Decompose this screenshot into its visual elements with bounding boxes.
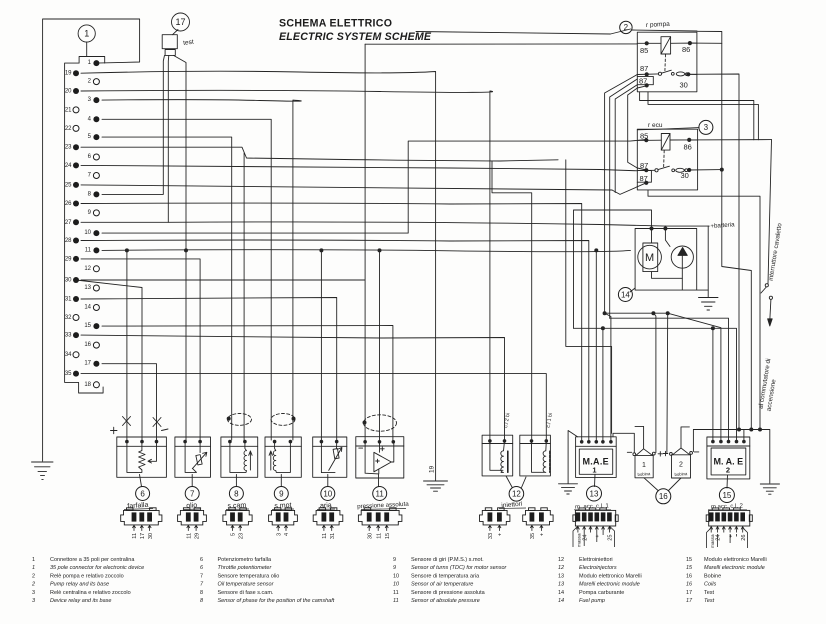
sensor 7 inner wires (185, 442, 200, 473)
pin 13 (93, 285, 99, 291)
wire pin 29 to sensor 7 right (81, 259, 200, 440)
node circle 12 (509, 487, 524, 502)
pin 20 (73, 88, 79, 94)
svg-text:Marelli electronic module: Marelli electronic module (704, 565, 765, 571)
wire pin 11 drop MAE1 (595, 250, 597, 440)
svg-text:Sensore temperatura olio: Sensore temperatura olio (218, 574, 280, 580)
sensor 6 inner band (117, 445, 167, 447)
wire pin 4 to sensor 9 left (102, 119, 271, 440)
svg-text:14: 14 (84, 305, 91, 311)
injector A coil (490, 441, 505, 472)
plug sensor10 (aria) (313, 508, 343, 525)
sensor 7 dots (183, 440, 187, 444)
svg-text:2: 2 (726, 466, 730, 475)
plus mark sensor6 (111, 427, 118, 434)
injector box A (482, 435, 513, 476)
svg-text:7: 7 (200, 574, 203, 580)
svg-text:16: 16 (659, 492, 668, 501)
svg-text:30: 30 (680, 81, 688, 90)
shield dot sensor 8 (227, 417, 231, 421)
svg-text:Sensore di temperatura aria: Sensore di temperatura aria (411, 574, 480, 580)
node circle 6 (136, 487, 150, 501)
pin 31 (73, 296, 79, 302)
wire channel x565 to MAE1 area (566, 160, 612, 434)
underline farfalla (124, 509, 153, 510)
wire pin 5 to sensor 8 left (102, 137, 232, 440)
svg-text:32: 32 (65, 315, 72, 321)
sensor 6 wiper arrow (148, 442, 157, 463)
wire pin 11 drop sensor 6 left (126, 250, 128, 440)
svg-text:30: 30 (148, 533, 154, 539)
sensor 8 coil (230, 442, 247, 473)
MAE1 band line (576, 445, 617, 447)
node circle 1 stem (86, 42, 88, 56)
sensor 7 box (175, 437, 211, 477)
svg-text:8: 8 (200, 590, 203, 596)
svg-text:9: 9 (393, 565, 396, 571)
svg-text:33: 33 (65, 333, 72, 339)
underline s cam (226, 508, 249, 511)
svg-text:Elettroiniettori: Elettroiniettori (579, 557, 613, 563)
node circle 13 (587, 486, 602, 501)
coil 1 HT lead (635, 426, 644, 448)
relay 2 switch pivot (658, 72, 661, 75)
ground G3 MAE1 (559, 484, 578, 494)
junction dots on pin11 bus and channels (125, 248, 129, 252)
svg-text:86: 86 (682, 45, 690, 54)
X mark wire 6 left (123, 417, 131, 426)
relay 2 pin dots (645, 41, 649, 45)
underline s mot (272, 508, 294, 511)
plug injector A (480, 508, 510, 525)
fuel pump triangle (678, 248, 687, 256)
svg-text:13: 13 (558, 582, 565, 588)
svg-text:Sensore di fase s.cam.: Sensore di fase s.cam. (218, 590, 274, 596)
connector pins (65, 60, 100, 388)
relay 2 pin30 wire (688, 73, 697, 75)
node circle 11 (373, 487, 387, 501)
relay 2 coil (661, 37, 671, 54)
svg-text:Oil temperature sensor: Oil temperature sensor (218, 582, 275, 588)
svg-text:ELECTRIC SYSTEM SCHEME: ELECTRIC SYSTEM SCHEME (279, 31, 432, 43)
injector box B band (520, 443, 551, 445)
relay 3 87b small frame (637, 171, 651, 183)
relay 2 top edge extension (697, 31, 722, 43)
wire relay2 wrap staircase a (640, 92, 754, 140)
pin 15 (93, 323, 99, 329)
wire channel V2 horizontal y318 to MAE2 wire3 (610, 318, 729, 440)
coil 2 terminals (670, 453, 673, 456)
wire pin 17 to sensor 6 right (102, 364, 157, 440)
ground G1 bottom-left (32, 462, 54, 479)
pin 18 (93, 382, 99, 388)
relay 2 dashed actuator (664, 55, 667, 72)
wire test-left to pin 8 (102, 55, 165, 194)
svg-text:c.l 1 bi: c.l 1 bi (546, 413, 555, 429)
svg-text:+batteria: +batteria (710, 221, 735, 230)
svg-text:16: 16 (686, 574, 692, 580)
svg-text:test: test (183, 39, 195, 47)
wire pin 10 to relay3 85 (102, 140, 645, 234)
wire pin 23 jog route to channel (81, 147, 558, 161)
pin 30 (73, 277, 79, 283)
svg-text:Marelli electronic module: Marelli electronic module (579, 582, 640, 588)
svg-text:14: 14 (621, 290, 630, 299)
underline olio (184, 508, 200, 511)
injector B core bar (549, 451, 551, 472)
shield dot sensor 9 (292, 417, 296, 421)
relay 2 switch blade (662, 70, 672, 73)
stand switch upper contact (765, 284, 768, 287)
pin 16 (93, 342, 99, 348)
injector box A band (482, 443, 513, 445)
ground G5 pump (699, 298, 719, 311)
pin 8 (93, 191, 99, 197)
pin 22 (73, 125, 79, 131)
stand switch blade (761, 287, 766, 293)
svg-text:11: 11 (322, 533, 328, 539)
sensor 11 op-amp triangle (374, 452, 391, 472)
relay 2 87 wire (637, 73, 658, 76)
relay 3 switch pivot (655, 169, 658, 172)
wire pin 26 to MAE1 (81, 203, 582, 440)
svg-text:9: 9 (393, 557, 396, 563)
relay 3 87 wire (637, 169, 655, 171)
svg-text:87: 87 (640, 174, 648, 183)
pin 29 (73, 256, 79, 262)
relay 2 label line (632, 30, 697, 31)
wire injectors to node 12 (506, 476, 526, 488)
svg-text:87: 87 (640, 64, 648, 73)
sensor 11 op-amp wires (365, 442, 394, 474)
svg-text:interruttore cavaletto: interruttore cavaletto (768, 222, 784, 281)
node circle 8 (229, 487, 243, 501)
relay 2 pin85 wire (637, 42, 661, 44)
svg-text:87: 87 (640, 161, 648, 170)
svg-text:7: 7 (200, 582, 204, 588)
svg-text:17: 17 (140, 533, 146, 539)
svg-text:12: 12 (512, 490, 521, 499)
injector B coil (532, 441, 547, 472)
svg-text:86: 86 (684, 143, 692, 152)
svg-text:Electroinjectors: Electroinjectors (579, 565, 617, 571)
node circle 16 (656, 489, 671, 504)
relay 2 contact oval (676, 72, 685, 76)
svg-text:7: 7 (190, 489, 195, 498)
node circle 1 (78, 25, 95, 42)
svg-text:18: 18 (84, 382, 91, 388)
svg-text:3: 3 (704, 123, 709, 132)
MAE2 outer box (707, 437, 750, 479)
svg-text:17: 17 (84, 361, 91, 367)
sensor 10 inner wires (321, 442, 336, 473)
svg-text:25: 25 (65, 182, 72, 188)
wire relay2 wrap staircase b (648, 92, 758, 140)
svg-text:2: 2 (32, 574, 35, 580)
svg-text:12: 12 (558, 557, 564, 563)
svg-text:SCHEMA ELETTRICO: SCHEMA ELETTRICO (279, 18, 392, 30)
plug MAE1 end hooks (573, 526, 615, 547)
minus mark sensor6 (162, 429, 169, 431)
node circle 15 (719, 488, 734, 503)
svg-text:13: 13 (558, 574, 564, 580)
svg-text:Pump relay and its base: Pump relay and its base (50, 582, 109, 588)
svg-text:Modulo elettronico Marelli: Modulo elettronico Marelli (704, 557, 767, 563)
wire pin 11 drop sensor 11 mid (379, 250, 381, 440)
svg-text:Connettore a 35 poli per centr: Connettore a 35 poli per centralina (50, 557, 135, 563)
wire long horizontal y328 to MAE2 wire4 (574, 328, 737, 440)
sensor 8 dots (228, 440, 232, 444)
fuel pump second stem (665, 229, 670, 247)
wire diagonal to MAE2 wire2 (668, 313, 721, 440)
MAE1 wire dots (580, 440, 584, 444)
pin 34 (73, 352, 79, 358)
sensor 10 dots (320, 440, 324, 444)
svg-text:30: 30 (681, 171, 689, 180)
injector A core bar (507, 451, 509, 472)
pin 14 (93, 305, 99, 311)
pin 23 (73, 144, 79, 150)
node circle 3 (699, 120, 713, 134)
sensor 8 inner band (221, 445, 258, 447)
pin 12 (93, 266, 99, 272)
svg-text:10: 10 (323, 489, 332, 498)
pin 21 (73, 107, 79, 113)
svg-text:c.l 2 bi: c.l 2 bi (503, 413, 512, 429)
wire relay2 85 long feed from pin30 riser (365, 43, 637, 45)
underline pressione assoluta (361, 509, 406, 510)
svg-text:14: 14 (558, 598, 564, 604)
wire pin 28 to MAE1 (81, 240, 589, 440)
pin 11 (93, 247, 99, 253)
svg-text:9: 9 (279, 489, 284, 498)
relay 2 87b small frame (637, 76, 653, 84)
wire test-mid to pin 27 (81, 55, 169, 222)
svg-text:12: 12 (558, 565, 564, 571)
svg-text:2: 2 (88, 79, 92, 85)
test unit 17 link line (173, 30, 179, 35)
svg-text:85: 85 (640, 132, 648, 141)
relay 2 box (637, 32, 697, 92)
svg-text:28: 28 (65, 238, 72, 244)
pin 6 (93, 154, 99, 160)
wire relay3 wrap staircase (648, 190, 760, 430)
svg-text:31: 31 (65, 297, 72, 303)
ground G2 (19) (424, 481, 448, 491)
svg-text:21: 21 (65, 107, 72, 113)
wire MAE1 to node 13 (594, 474, 597, 486)
wire pin 11 common bus (102, 250, 631, 252)
sensor 9 inner band (265, 445, 301, 447)
relay 2 coil to pin86 wire (671, 42, 697, 44)
ground G4 MAE2 (760, 484, 779, 494)
sensor 7 thermistor arrow (192, 452, 207, 468)
pin 28 (73, 238, 79, 244)
MAE2 inner box (711, 448, 746, 475)
svg-text:11: 11 (187, 533, 193, 539)
coil 2 HT lead (681, 427, 689, 448)
svg-text:massa: massa (710, 534, 715, 548)
pin 4 (93, 116, 99, 122)
svg-text:Device relay and its base: Device relay and its base (50, 598, 111, 604)
relay 3 coil diagonal (661, 134, 670, 151)
svg-text:1: 1 (88, 60, 92, 66)
fuel pump outlet line (681, 255, 683, 290)
fuel pump 14 box (635, 229, 697, 291)
svg-text:25: 25 (608, 535, 614, 541)
wire sensors to node circles (140, 474, 379, 486)
underline iniettori (499, 507, 526, 510)
wire pin 24 toward relay3 87 (81, 165, 600, 169)
MAE1 ground stem hook (568, 431, 577, 484)
svg-text:15: 15 (84, 323, 91, 329)
svg-text:Modulo elettronico Marelli: Modulo elettronico Marelli (579, 574, 642, 580)
MAE2 wire dots (711, 440, 715, 444)
wire sensor 8 right drop (243, 153, 245, 440)
plug sensor6 (farfalla) (121, 508, 162, 525)
node circle 2 (620, 21, 632, 33)
svg-text:+: + (540, 533, 546, 536)
coil 2 body (672, 455, 691, 478)
svg-text:Coils: Coils (704, 582, 716, 588)
test unit 17 circle (172, 13, 190, 31)
svg-text:26: 26 (65, 201, 72, 207)
svg-text:11: 11 (376, 533, 382, 539)
svg-text:3: 3 (32, 590, 35, 596)
plug MAE2 end hooks (707, 528, 748, 548)
svg-text:1: 1 (32, 565, 35, 571)
sensor 7 thermistor rect (196, 455, 202, 465)
coil 1 body (635, 455, 653, 477)
svg-text:3: 3 (32, 598, 36, 604)
svg-text:13: 13 (84, 285, 91, 291)
sensor 6 potentiometer zigzag (127, 442, 145, 473)
svg-text:15: 15 (686, 565, 693, 571)
svg-text:Fuel pump: Fuel pump (579, 598, 605, 604)
wire channel V1 branch down MAE1 (605, 313, 611, 441)
relay 2 coil diagonal (661, 37, 671, 54)
svg-text:5: 5 (88, 134, 92, 140)
svg-text:19: 19 (65, 71, 72, 77)
svg-text:15: 15 (385, 533, 391, 539)
wire pin 31 to sensor 10 right (81, 298, 337, 441)
shielded cable ellipse sensor 11 (364, 415, 397, 431)
shielded cable ellipse sensor 8 (228, 414, 252, 426)
svg-text:16: 16 (686, 582, 693, 588)
wire S12B left feed Z-jog (492, 162, 532, 440)
svg-text:11: 11 (376, 489, 385, 498)
MAE1 outer box (576, 437, 617, 478)
svg-text:9: 9 (88, 210, 92, 216)
svg-text:2: 2 (624, 23, 629, 32)
wire battery feed end (665, 225, 709, 227)
sensor 9 arrow (269, 451, 272, 470)
svg-text:20: 20 (65, 89, 72, 95)
svg-text:8: 8 (234, 489, 239, 498)
wire relay2 30 down right channel (688, 74, 739, 430)
svg-text:+: + (728, 535, 734, 538)
fuel pump motor brush rect (643, 243, 658, 272)
relay 3 switch blade (658, 166, 669, 169)
svg-text:6: 6 (200, 557, 203, 563)
svg-text:Sensore di pressione assoluta: Sensore di pressione assoluta (411, 590, 486, 596)
pin 35 (73, 371, 79, 377)
wire pin 3 to sensor 9 right (102, 100, 301, 440)
fuel pump motor circle (638, 245, 662, 269)
wire coil2 riser (666, 313, 669, 452)
svg-text:17: 17 (686, 598, 693, 604)
wire pin 30 to sensor 11 left and relay2 85 riser (81, 44, 365, 440)
wire pin 35 to injector B right (81, 374, 546, 439)
wire MAE2 wire5 riser (743, 430, 745, 441)
sensor 7 inner band (175, 445, 211, 447)
svg-text:23: 23 (238, 533, 244, 539)
wire pump box to node 14 (630, 288, 635, 292)
sensor 6 box (117, 437, 167, 477)
X mark wire 6 right (153, 418, 161, 427)
pin 24 (73, 162, 79, 168)
wire channel V1 horizontal y313 to coils (605, 312, 668, 314)
wire coil2 minus link (692, 430, 694, 452)
svg-text:Test: Test (704, 598, 715, 604)
svg-text:11: 11 (85, 247, 92, 253)
svg-text:33: 33 (488, 533, 494, 539)
pin 2 (93, 79, 99, 85)
sensor 11 plus-minus marks (359, 447, 384, 463)
sensor 11 dots (363, 440, 367, 444)
svg-text:10: 10 (393, 574, 399, 580)
svg-text:6: 6 (200, 565, 204, 571)
wire coils to node 16 (644, 478, 681, 491)
fuel pump pump circle (671, 246, 693, 268)
svg-text:35: 35 (530, 533, 536, 539)
underline aria (317, 508, 335, 511)
relay 3 coil (661, 134, 670, 151)
wire pump riser left to channel (574, 210, 652, 328)
sensor 10 box (313, 437, 347, 477)
wire pin 25 toward relay3 87b (81, 185, 612, 190)
svg-text:Test: Test (704, 590, 715, 596)
node circle 7 (185, 487, 199, 501)
wire MAE2 wire1 riser (712, 328, 714, 440)
sensor 9 coil (273, 442, 290, 473)
wire relay2 87b diagonal to channel V2 (610, 79, 638, 318)
node circle 14 (618, 288, 632, 302)
wire pin 15 to sensor 11 right (102, 326, 393, 441)
svg-text:Sensore di giri (P.M.S.) s.mot: Sensore di giri (P.M.S.) s.mot. (411, 557, 484, 563)
svg-text:15: 15 (686, 557, 692, 563)
svg-text:1: 1 (32, 557, 35, 563)
pin 5 (93, 134, 99, 140)
wire stand switch to ignition arrow (768, 140, 772, 319)
plug sensor9 (s.mot) (269, 508, 298, 525)
svg-text:Sensor of turns (TDC) for moto: Sensor of turns (TDC) for motor sensor (411, 565, 508, 571)
wire MAE1 wire4 riser (602, 328, 604, 440)
svg-text:aria: aria (320, 502, 332, 510)
svg-text:24: 24 (582, 535, 588, 541)
svg-text:8: 8 (88, 191, 92, 197)
sensor 11 inner band (356, 445, 404, 447)
svg-text:34: 34 (65, 352, 72, 358)
svg-text:r pompa: r pompa (646, 21, 671, 29)
plug sensor7 (olio) (178, 508, 207, 525)
shielded cable ellipse sensor 9 (271, 414, 295, 426)
svg-text:bobina: bobina (674, 471, 688, 477)
plug MAE1 (573, 508, 618, 526)
svg-text:10: 10 (393, 582, 400, 588)
pin 10 (93, 230, 99, 236)
svg-text:31: 31 (330, 533, 336, 539)
